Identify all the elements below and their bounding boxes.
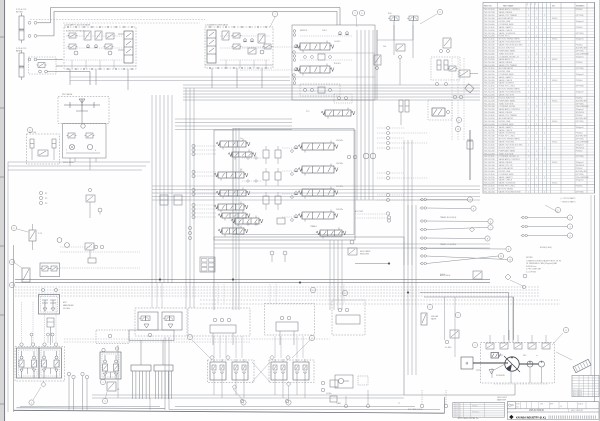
inspection stamp (573, 359, 591, 372)
svg-text:33 kg/cm2: 33 kg/cm2 (576, 180, 584, 182)
svg-text:12 70912: 12 70912 (455, 412, 461, 414)
svg-text:MAIN RELIEF: MAIN RELIEF (63, 304, 74, 307)
svg-text:708-2L-0345: 708-2L-0345 (484, 36, 495, 38)
svg-text:1: 1 (536, 36, 537, 38)
svg-text:708-2L-00112: 708-2L-00112 (497, 397, 507, 399)
gauges center-left (57, 238, 62, 243)
main pump P1 (505, 357, 519, 371)
svg-text:VALVE ASSY, CONTROL: VALVE ASSY, CONTROL (499, 108, 520, 111)
svg-text:2: 2 (569, 217, 571, 219)
svg-text:BLOCK, SHUTTLE: BLOCK, SHUTTLE (499, 97, 516, 99)
svg-text:1: 1 (528, 174, 529, 176)
svg-text:P3: P3 (45, 203, 47, 205)
spool row 1 (302, 143, 334, 150)
aux valves col right-of-center rows (263, 150, 269, 158)
pedal drop wires (213, 380, 215, 395)
svg-text:PPC VALVE: PPC VALVE (62, 93, 73, 96)
main valve assembly enclosure upper (292, 25, 375, 100)
svg-text:HYD. CIRCUIT: HYD. CIRCUIT (571, 410, 584, 412)
svg-text:40.2 MPa: 40.2 MPa (63, 308, 70, 310)
svg-text:709-70-5140: 709-70-5140 (484, 136, 495, 138)
svg-text:709-70-5140: 709-70-5140 (484, 18, 495, 20)
svg-text:1: 1 (528, 21, 529, 23)
svg-text:33 kg/cm2: 33 kg/cm2 (576, 144, 584, 146)
svg-text:VALVE, CHECK: VALVE, CHECK (499, 79, 513, 82)
svg-text:709-70-5310: 709-70-5310 (484, 121, 495, 123)
X crossing lines pedals (252, 362, 270, 382)
long horizontals mid band (152, 185, 480, 187)
scan edge left (0, 0, 4, 421)
svg-text:DR: DR (517, 407, 520, 409)
title block main (507, 401, 599, 403)
filters mid (160, 195, 168, 205)
svg-text:8: 8 (13, 228, 15, 230)
svg-text:708-2L-0345: 708-2L-0345 (484, 65, 495, 67)
svg-text:VALVE: VALVE (431, 318, 437, 321)
svg-text:2: 2 (102, 382, 104, 384)
svg-text:T (AIR): T (AIR) (336, 402, 341, 405)
svg-text:HOSE, P.P.C. 280 L: HOSE, P.P.C. 280 L (499, 186, 516, 188)
svg-text:ARM (2-36-6): ARM (2-36-6) (440, 274, 451, 277)
title cells row1 (507, 408, 599, 410)
solenoid block L4 (39, 295, 60, 315)
upper small comps near 273-280 (473, 271, 482, 279)
svg-text:19.6 MPa: 19.6 MPa (336, 140, 343, 142)
svg-text:(OPTION): (OPTION) (576, 192, 584, 194)
svg-text:CYLINDER, BOOM L.H.: CYLINDER, BOOM L.H. (499, 56, 520, 58)
tilted valve R3 (465, 84, 474, 93)
svg-text:19.6 MPa: 19.6 MPa (336, 163, 343, 165)
block2 internals (222, 31, 229, 40)
PPC diamond leader (41, 382, 46, 387)
vertical bus left of center (151, 95, 153, 283)
svg-text:12 70912: 12 70912 (455, 403, 461, 405)
small orifices center rows (247, 157, 249, 159)
svg-text:VALVE, CHECK: VALVE, CHECK (499, 29, 513, 32)
svg-text:40.2 MPa SET: 40.2 MPa SET (576, 136, 587, 138)
bottom small comps (330, 396, 337, 402)
svg-text:4: 4 (11, 285, 13, 287)
svg-text:BLOCK, SHUTTLE: BLOCK, SHUTTLE (499, 47, 516, 49)
svg-text:KMF90 SWING: KMF90 SWING (63, 162, 75, 164)
svg-text:2-36-6 SERVICE: 2-36-6 SERVICE (576, 177, 590, 179)
svg-text:709-70-5310: 709-70-5310 (484, 180, 495, 182)
svg-text:709-12-1160: 709-12-1160 (484, 174, 495, 176)
svg-text:PC200-6: PC200-6 (576, 186, 583, 188)
svg-text:9: 9 (508, 249, 510, 251)
svg-text:709-12-1160: 709-12-1160 (484, 86, 495, 88)
svg-text:208-62-56240: 208-62-56240 (529, 409, 545, 412)
svg-text:FILTER, LINE: FILTER, LINE (499, 121, 511, 123)
svg-text:EPC: EPC (500, 355, 504, 357)
wire R down (469, 130, 471, 180)
svg-text:709-12-2230: 709-12-2230 (484, 100, 495, 102)
upper box pilot dashes (240, 46, 299, 48)
upper center crossing bus (183, 84, 480, 86)
terminal grid (200, 257, 215, 272)
svg-text:1: 1 (536, 53, 537, 55)
svg-text:708-2L-0345: 708-2L-0345 (484, 124, 495, 126)
swing box drops (69, 158, 71, 166)
svg-text:702-21-0910: 702-21-0910 (484, 177, 495, 179)
svg-text:1: 1 (189, 337, 191, 339)
svg-text:1: 1 (528, 39, 529, 41)
svg-text:P2: P2 (45, 198, 47, 200)
svg-text:702-21-0910: 702-21-0910 (484, 89, 495, 91)
svg-text:36.5: 36.5 (523, 355, 526, 357)
svg-text:CYLINDER, ARM: CYLINDER, ARM (499, 173, 514, 176)
conn rows group2 (421, 220, 423, 222)
svg-text:709-12-2230: 709-12-2230 (484, 130, 495, 132)
svg-text:709-12-1160: 709-12-1160 (484, 115, 495, 117)
svg-text:KAYABA INDUSTRY (K.K.): KAYABA INDUSTRY (K.K.) (516, 416, 546, 419)
svg-text:(OPTION): (OPTION) (576, 139, 584, 141)
svg-text:1: 1 (536, 150, 537, 152)
svg-text:0.1 MPa: 0.1 MPa (326, 393, 332, 395)
svg-text:709-12-2230: 709-12-2230 (484, 42, 495, 44)
svg-text:708-2L-0345: 708-2L-0345 (484, 183, 495, 185)
svg-text:709-12-1160: 709-12-1160 (484, 144, 495, 146)
svg-text:CYLINDER, BOOM: CYLINDER, BOOM (499, 106, 516, 108)
svg-text:33 kg/cm2: 33 kg/cm2 (576, 92, 584, 94)
wire top bus right drop (339, 8, 341, 26)
svg-text:T1: T1 (398, 403, 400, 405)
pump P3 (539, 361, 545, 367)
spool row 2 (302, 166, 334, 173)
svg-text:96514-: 96514- (552, 142, 558, 144)
enclosure bottom-center (214, 237, 404, 395)
label circles bus left (188, 226, 191, 229)
svg-text:702-75-0120: 702-75-0120 (484, 139, 495, 141)
svg-text:1: 1 (528, 50, 529, 52)
manifold comb 1 (131, 365, 151, 371)
svg-text:DES: DES (517, 404, 520, 406)
svg-text:VALVE, SOLENOID: VALVE, SOLENOID (499, 32, 516, 35)
svg-text:709-12-1100: 709-12-1100 (484, 186, 495, 188)
manifold comb 2 (154, 365, 173, 371)
svg-text:TRAVEL L.H (2-36-6): TRAVEL L.H (2-36-6) (440, 243, 456, 246)
center-left spool rows (220, 141, 246, 147)
svg-text:CYLINDER, ARM: CYLINDER, ARM (499, 23, 514, 26)
svg-text:A 12 345 678: A 12 345 678 (573, 389, 582, 392)
bottom long wires (92, 397, 404, 399)
svg-text:96514-: 96514- (552, 100, 558, 102)
svg-text:SOL: SOL (388, 13, 392, 15)
relief valve cluster R1 (443, 38, 451, 48)
solenoid valve TR2 (409, 16, 414, 21)
svg-text:7: 7 (274, 14, 276, 16)
PPC joystick box (58, 97, 109, 124)
svg-text:709-70-5140: 709-70-5140 (484, 77, 495, 79)
svg-text:PART NO.: PART NO. (484, 4, 493, 7)
PPC block A (17, 348, 40, 378)
svg-text:HOSE, P.P.C. 280 L: HOSE, P.P.C. 280 L (499, 136, 516, 138)
svg-text:PUMP ASSY MAIN: PUMP ASSY MAIN (499, 49, 516, 52)
svg-text:708-2L-0345: 708-2L-0345 (484, 94, 495, 96)
pressure switch cluster (270, 251, 274, 255)
drawing number row (507, 411, 599, 413)
svg-text:702-75-0120: 702-75-0120 (484, 50, 495, 52)
svg-text:709-70-5140: 709-70-5140 (484, 106, 495, 108)
svg-text:2-7.5: 2-7.5 (38, 233, 42, 235)
block1 internals (69, 33, 76, 38)
main valve enclosure lower (214, 130, 355, 240)
balloon R6 (455, 126, 460, 131)
circles row2 (213, 318, 217, 322)
svg-text:3.4 MPa: 3.4 MPa (445, 347, 451, 349)
svg-text:VALVE, SAFETY: VALVE, SAFETY (499, 76, 514, 79)
svg-text:3: 3 (458, 120, 460, 122)
bus pair dark (15, 279, 490, 281)
svg-text:VALVE ASSY, CONTROL: VALVE ASSY, CONTROL (499, 158, 520, 161)
svg-text:1: 1 (536, 27, 537, 29)
svg-text:PC200-6: PC200-6 (576, 62, 583, 64)
svg-text:VALVE, HOLDING BOOM: VALVE, HOLDING BOOM (499, 191, 521, 194)
svg-text:ACCUMULATOR: ACCUMULATOR (499, 17, 514, 20)
svg-text:APPLICABLE SERIAL No.: APPLICABLE SERIAL No. (458, 417, 480, 420)
svg-text:709-12-1100: 709-12-1100 (484, 127, 495, 129)
svg-text:T: T (531, 4, 532, 6)
pump drive shaft (473, 362, 508, 364)
svg-text:VALVE, RELIEF: VALVE, RELIEF (499, 111, 513, 114)
svg-text:(OPTION): (OPTION) (576, 15, 584, 17)
wire (37, 22, 51, 24)
wire block1 bottom (64, 65, 136, 67)
gauge pair right (363, 153, 369, 159)
svg-text:2: 2 (429, 307, 431, 309)
table right tick col (594, 3, 596, 194)
svg-text:TRAVEL R.H (2-36-6): TRAVEL R.H (2-36-6) (440, 216, 457, 219)
svg-text:4: 4 (243, 402, 245, 404)
svg-text:* : SERVICE PARTS: * : SERVICE PARTS (560, 200, 576, 203)
svg-text:M: M (466, 362, 469, 366)
svg-text:1: 1 (528, 109, 529, 111)
wires mid-left lower (89, 250, 91, 258)
svg-text:1: 1 (536, 186, 537, 188)
svg-text:SERVICE: SERVICE (300, 30, 307, 32)
balloon b2 (272, 11, 277, 16)
svg-text:96514-: 96514- (552, 39, 558, 41)
svg-text:T: T (66, 150, 68, 152)
svg-text:12 70912: 12 70912 (455, 408, 461, 410)
bottom tick strip (548, 416, 550, 419)
svg-text:33 kg/cm2: 33 kg/cm2 (576, 39, 584, 41)
dashed box above manifolds (96, 330, 129, 344)
svg-text:27.5: 27.5 (306, 111, 309, 113)
svg-text:709-70-5310: 709-70-5310 (484, 33, 495, 35)
svg-text:ACCUMULATOR: ACCUMULATOR (499, 117, 514, 120)
mini spool top of lower bank (325, 110, 351, 116)
svg-text:VALVE, SAFETY: VALVE, SAFETY (499, 26, 514, 29)
svg-text:S/N 96514-: S/N 96514- (576, 112, 585, 114)
svg-text:VALVE, HOLDING BOOM: VALVE, HOLDING BOOM (499, 41, 521, 44)
svg-text:19.6 MPa: 19.6 MPa (336, 209, 343, 211)
filter+valve under (450, 330, 459, 338)
balloon TR (437, 9, 442, 14)
sol box drop dots (217, 284, 219, 303)
svg-text:1: 1 (528, 150, 529, 152)
block1 inner lines (66, 35, 122, 37)
valve L2 (22, 268, 30, 282)
svg-text:TUBE, SUCTION: TUBE, SUCTION (499, 153, 514, 155)
upper box mid comps (304, 56, 307, 59)
svg-text:PC200-6: PC200-6 (576, 168, 583, 170)
svg-text:7: 7 (457, 315, 459, 317)
svg-text:2: 2 (544, 74, 545, 76)
svg-text:1: 1 (536, 142, 537, 144)
svg-text:1: 1 (536, 18, 537, 20)
PPC block B (39, 348, 62, 378)
block2 inner lines (220, 35, 270, 37)
svg-text:2-60: 2-60 (383, 46, 386, 48)
svg-text:2: 2 (544, 30, 545, 32)
pedal valve 1 (210, 362, 226, 380)
dashed buses (15, 286, 540, 288)
svg-text:PUMP ASSY MAIN: PUMP ASSY MAIN (499, 99, 516, 102)
pilot dashed lines top (30, 19, 205, 21)
conn rows group3 (421, 247, 423, 249)
svg-text:33 kg/cm2: 33 kg/cm2 (576, 162, 584, 164)
valve block 2 enclosure (205, 27, 273, 68)
svg-text:PC200LC-6: PC200LC-6 (472, 412, 479, 414)
servo small (491, 353, 499, 359)
upper box comps right (334, 94, 352, 103)
svg-text:UNLOAD: UNLOAD (431, 315, 439, 318)
svg-text:VALVE, PPC TRAVEL: VALVE, PPC TRAVEL (499, 114, 517, 117)
logo diamond (509, 415, 513, 419)
right pilot port circles column (386, 126, 389, 129)
svg-text:33 kg/cm2: 33 kg/cm2 (576, 21, 584, 23)
left frame of lower section (13, 245, 15, 412)
bus top lines (214, 243, 490, 245)
svg-text:12 70912: 12 70912 (455, 410, 461, 412)
svg-text:VALVE, SOLENOI: VALVE, SOLENOI (499, 82, 515, 85)
svg-text:FILTER, LINE: FILTER, LINE (499, 21, 511, 23)
svg-text:709-12-1100: 709-12-1100 (484, 156, 495, 158)
svg-text:33 kg/cm2: 33 kg/cm2 (576, 56, 584, 58)
left aux components rows (295, 146, 298, 149)
svg-text:702-16-0110: 702-16-0110 (484, 103, 495, 105)
svg-text:(OPTION): (OPTION) (576, 50, 584, 52)
svg-text:REMARKS: REMARKS (576, 4, 585, 7)
sol row enclosure 1 (135, 308, 187, 336)
svg-text:1: 1 (528, 139, 529, 141)
svg-text:709-12-2230: 709-12-2230 (484, 12, 495, 14)
svg-text:VALVE, SUCTION: VALVE, SUCTION (499, 93, 515, 96)
wire (37, 59, 63, 61)
svg-text:702-75-0120: 702-75-0120 (484, 21, 495, 23)
svg-text:1: 1 (528, 156, 529, 158)
svg-text:OIL PRESSURE 3.2 MPa (33 kg/c: OIL PRESSURE 3.2 MPa (33 kg/cm2) MAX (526, 262, 558, 265)
svg-text:3: 3 (104, 401, 106, 403)
svg-text:VALVE, PPC TRAVEL: VALVE, PPC TRAVEL (499, 14, 517, 17)
svg-text:2: 2 (354, 13, 356, 15)
wire block2 bottom (205, 64, 273, 66)
svg-text:CYLINDER, ARM: CYLINDER, ARM (499, 123, 514, 126)
sol row enclosure 4 (332, 300, 365, 335)
svg-text:PC200-6: PC200-6 (576, 9, 583, 11)
svg-text:CYLINDER, ARM: CYLINDER, ARM (499, 73, 514, 76)
svg-text:PC200-6: PC200-6 (472, 405, 478, 407)
svg-text:709-12-1100: 709-12-1100 (484, 97, 495, 99)
svg-text:1: 1 (536, 115, 537, 117)
vertical bus right of bank (356, 30, 358, 200)
pedal diamonds (210, 355, 214, 359)
relief valve left of pump (421, 313, 427, 325)
svg-text:NOTES: NOTES (526, 257, 533, 259)
svg-text:709-12-1160: 709-12-1160 (484, 56, 495, 58)
svg-text:40.2 MPa SET: 40.2 MPa SET (576, 100, 587, 102)
pedal valve 3 (271, 362, 287, 380)
solenoid block R4 (428, 100, 452, 120)
gauges R (453, 95, 457, 99)
orifice row top (300, 84, 340, 96)
bus bundle y119-130 (175, 118, 292, 120)
svg-text:L.H 36.5: L.H 36.5 (334, 41, 340, 43)
wires left middle (8, 161, 150, 163)
svg-text:1. REMOTE CONTROL VALVE PORT: 1. REMOTE CONTROL VALVE PORT P1, P2, P3 (526, 260, 561, 263)
svg-text:2-36-6 SERVICE: 2-36-6 SERVICE (576, 142, 590, 144)
svg-text:PART NAME: PART NAME (503, 4, 514, 7)
svg-text:709-12-1100: 709-12-1100 (484, 68, 495, 70)
svg-text:40.2 MPa SET: 40.2 MPa SET (576, 171, 587, 173)
svg-text:CYLINDER, BOOM L.H.: CYLINDER, BOOM L.H. (499, 156, 520, 158)
small comp left mid (86, 195, 95, 202)
svg-text:1: 1 (536, 71, 537, 73)
svg-text:MOTOR, SWING: MOTOR, SWING (499, 189, 514, 191)
svg-text:BOOM (2-36-6): BOOM (2-36-6) (540, 247, 552, 249)
svg-text:1: 1 (536, 9, 537, 11)
svg-text:1: 1 (528, 86, 529, 88)
svg-text:(OPTION): (OPTION) (576, 121, 584, 123)
pedal enclosure L (208, 360, 255, 383)
svg-text:cc: cc (536, 355, 538, 357)
svg-text:TUBE, SUCTION: TUBE, SUCTION (499, 103, 514, 105)
wires TR down (393, 25, 395, 55)
svg-text:(OPTION): (OPTION) (576, 68, 584, 70)
right divider lines (590, 195, 592, 376)
svg-text:1: 1 (536, 106, 537, 108)
valve L1 (29, 230, 36, 241)
svg-text:6: 6 (490, 221, 492, 223)
svg-text:709-70-5140: 709-70-5140 (484, 47, 495, 49)
svg-text:709-70-5310: 709-70-5310 (484, 62, 495, 64)
mid connectors left edge (7, 240, 9, 412)
spool row 4 (302, 212, 334, 219)
svg-text:2: 2 (544, 89, 545, 91)
motor box BR (335, 375, 353, 388)
svg-text:1: 1 (528, 33, 529, 35)
svg-text:PC200-6: PC200-6 (576, 97, 583, 99)
svg-text:1: 1 (528, 192, 529, 194)
cross dashed band lower (64, 338, 330, 340)
svg-text:1: 1 (528, 168, 529, 170)
svg-text:702-16-0110: 702-16-0110 (484, 45, 495, 47)
svg-text:MAIN PUMP: MAIN PUMP (497, 399, 506, 402)
long vertical buses right-center (451, 58, 453, 140)
right side of upper box comps (376, 30, 378, 55)
svg-text:702-21-0910: 702-21-0910 (484, 147, 495, 149)
swing machinery box (63, 124, 107, 159)
valve bank rows upper (300, 43, 330, 50)
revision grid (572, 375, 599, 396)
svg-text:4: 4 (569, 235, 571, 237)
parts table (483, 3, 595, 194)
svg-text:2: 2 (544, 118, 545, 120)
svg-text:1: 1 (528, 115, 529, 117)
svg-text:S/N 96514-: S/N 96514- (576, 147, 585, 149)
svg-text:1: 1 (528, 97, 529, 99)
